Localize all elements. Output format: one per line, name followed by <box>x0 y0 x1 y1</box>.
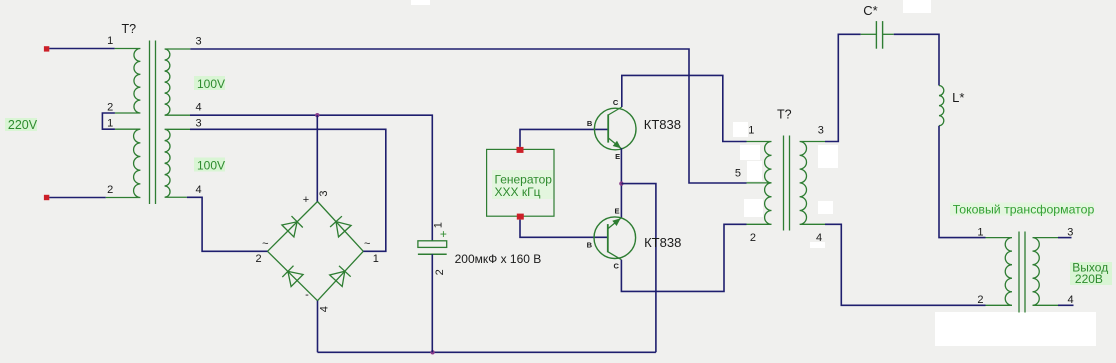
svg-text:100V: 100V <box>197 77 225 91</box>
wire T2 pin 3 to C* <box>825 34 861 141</box>
svg-text:E: E <box>614 207 619 216</box>
svg-text:1: 1 <box>107 117 113 129</box>
svg-text:2: 2 <box>977 294 983 306</box>
svg-text:C: C <box>613 98 619 107</box>
junction capacitor / bottom rail <box>430 350 434 354</box>
bridge edge bottom-right <box>318 251 364 300</box>
svg-text:C*: C* <box>863 3 877 18</box>
generator box <box>487 149 554 216</box>
svg-text:2: 2 <box>750 232 756 244</box>
capacitor C* plates <box>875 21 877 49</box>
junction T1 pin4A rail / bridge <box>315 113 319 117</box>
transformer T1 secondary winding A (pins 3-4) <box>165 49 191 115</box>
wire generator top to Q1 base <box>520 129 608 147</box>
svg-text:1: 1 <box>373 253 379 265</box>
output label highlight <box>1070 262 1112 285</box>
svg-text:C: C <box>613 262 619 271</box>
svg-text:2: 2 <box>434 269 446 275</box>
svg-text:5: 5 <box>735 168 741 180</box>
transistor Q1 <box>594 108 636 150</box>
transformer T1 secondary winding B (pins 3-4) <box>165 129 190 197</box>
bridge edge bottom-left <box>268 251 318 300</box>
svg-text:200мкФ x 160 В: 200мкФ x 160 В <box>455 252 542 266</box>
svg-text:3: 3 <box>318 191 330 197</box>
capacitor C1 bottom plate <box>418 253 447 255</box>
svg-text:2: 2 <box>256 253 262 265</box>
wire L* to T3 pin 1 <box>939 126 986 238</box>
white patch T2 left lower <box>744 199 763 217</box>
svg-text:КТ838: КТ838 <box>644 117 681 132</box>
bridge edge top-right <box>318 202 364 252</box>
transformer T2 primary winding (pins 1-5-2) <box>747 142 772 225</box>
svg-text:220V: 220V <box>8 118 38 132</box>
wire Q1 emitter to Q2 emitter <box>620 148 622 218</box>
transformer T3 primary winding (pins 1-2) <box>986 238 1013 306</box>
wire input bottom to T1 pin 2 <box>49 197 105 199</box>
bridge edge top-left <box>268 202 318 252</box>
svg-text:4: 4 <box>1068 294 1074 306</box>
capacitor C* lead right <box>883 33 894 35</box>
svg-text:3: 3 <box>196 36 202 48</box>
svg-text:4: 4 <box>196 184 202 196</box>
generator terminal bottom <box>517 214 524 220</box>
junction emitters <box>619 181 623 185</box>
generator text highlight <box>492 170 553 199</box>
svg-text:4: 4 <box>816 232 822 244</box>
svg-text:ХХХ кГц: ХХХ кГц <box>495 185 541 199</box>
label 100V lower highlight <box>194 158 225 172</box>
wire Q1 collector up-right to T2 pin 1 <box>622 75 747 141</box>
diode D2 (right-to-plus) <box>336 222 351 237</box>
white patch T2 left mid <box>747 161 762 181</box>
wire junction down to bridge plus <box>316 115 318 201</box>
wire T1 pin4A rail to capacitor <box>190 115 432 241</box>
svg-text:L*: L* <box>952 90 964 105</box>
white patch bottom-right <box>935 312 1096 346</box>
transformer T1 primary winding A (pins 1-2) <box>115 49 141 114</box>
svg-text:4: 4 <box>196 102 202 114</box>
transformer T1 core <box>149 41 151 205</box>
wire T1 pin3A to node at x689 (top rail) <box>190 49 746 183</box>
white patch T2 left upper <box>740 145 760 160</box>
svg-text:T?: T? <box>122 22 137 36</box>
svg-text:3: 3 <box>1067 227 1073 239</box>
svg-text:Генератор: Генератор <box>495 172 553 186</box>
svg-text:2: 2 <box>107 184 113 196</box>
generator terminal top <box>517 147 524 153</box>
svg-text:2: 2 <box>107 102 113 114</box>
svg-text:+: + <box>440 227 447 241</box>
svg-text:КТ838: КТ838 <box>644 235 681 250</box>
svg-text:1: 1 <box>748 125 754 137</box>
diode D4 (minus-to-right) <box>330 271 345 286</box>
wire generator bottom to Q2 base <box>520 220 608 238</box>
svg-text:~: ~ <box>262 238 268 250</box>
white patch top-middle <box>411 0 430 5</box>
svg-text:3: 3 <box>196 117 202 129</box>
transistor Q2 <box>594 217 636 259</box>
transformer T2 core <box>783 136 785 231</box>
svg-text:B: B <box>587 119 593 128</box>
svg-text:100V: 100V <box>197 159 225 173</box>
transformer T3 title highlight <box>950 203 1094 216</box>
wire emitter junction to bottom rail <box>621 184 656 353</box>
white patch T2 right upper <box>818 145 838 168</box>
capacitor C1 top plate <box>418 241 447 248</box>
white patch below T2 pin 4 <box>810 242 825 248</box>
white patch left of T2 pin 1 <box>733 122 748 137</box>
terminal input top <box>44 46 49 51</box>
svg-text:+: + <box>303 194 309 206</box>
wire T2 pin 4 to T3 pin 2 <box>825 224 986 305</box>
transformer T3 core <box>1018 232 1020 313</box>
label 100V upper highlight <box>194 76 225 90</box>
svg-text:3: 3 <box>818 125 824 137</box>
capacitor C* lead left <box>861 33 877 35</box>
wire Q2 collector to T2 pin 2 <box>621 224 746 291</box>
svg-text:4: 4 <box>319 306 331 312</box>
inductor L* <box>939 86 944 126</box>
wire bridge minus to bottom rail <box>317 301 319 353</box>
terminal input bottom <box>44 195 49 200</box>
white patch T2 right lower <box>818 201 833 214</box>
svg-text:B: B <box>587 240 593 249</box>
transformer T1 primary winding B (pins 1-2) <box>106 129 141 197</box>
svg-text:Токовый трансформатор: Токовый трансформатор <box>953 202 1095 216</box>
wire T3 pin 3 output <box>1058 237 1072 239</box>
svg-text:E: E <box>615 152 620 161</box>
svg-text:-: - <box>305 289 309 301</box>
wire T1 pin4B to bridge left <box>187 197 268 251</box>
wire jumper T1 pin2-pin1 <box>102 113 115 129</box>
bottom rail wire <box>318 351 656 353</box>
diode D1 (left-to-plus) <box>282 222 297 237</box>
white patch top-right <box>903 0 931 13</box>
svg-text:~: ~ <box>364 238 370 250</box>
wire T1 pin3B to bridge right <box>190 129 386 251</box>
transformer T2 secondary winding (pins 3-4) <box>800 142 825 225</box>
capacitor C1 bottom wire <box>431 254 433 352</box>
wire input top to T1 pin 1 <box>49 48 114 50</box>
label 220V highlight <box>5 118 37 131</box>
svg-text:1: 1 <box>107 35 113 47</box>
svg-text:1: 1 <box>977 227 983 239</box>
wire T3 pin 4 output <box>1058 304 1074 306</box>
svg-text:220В: 220В <box>1075 272 1103 286</box>
svg-text:T?: T? <box>777 108 792 122</box>
wire C* to L* <box>894 34 939 85</box>
transformer T3 secondary winding (pins 3-4) <box>1033 238 1059 306</box>
diode D3 (minus-to-left) <box>288 271 303 286</box>
